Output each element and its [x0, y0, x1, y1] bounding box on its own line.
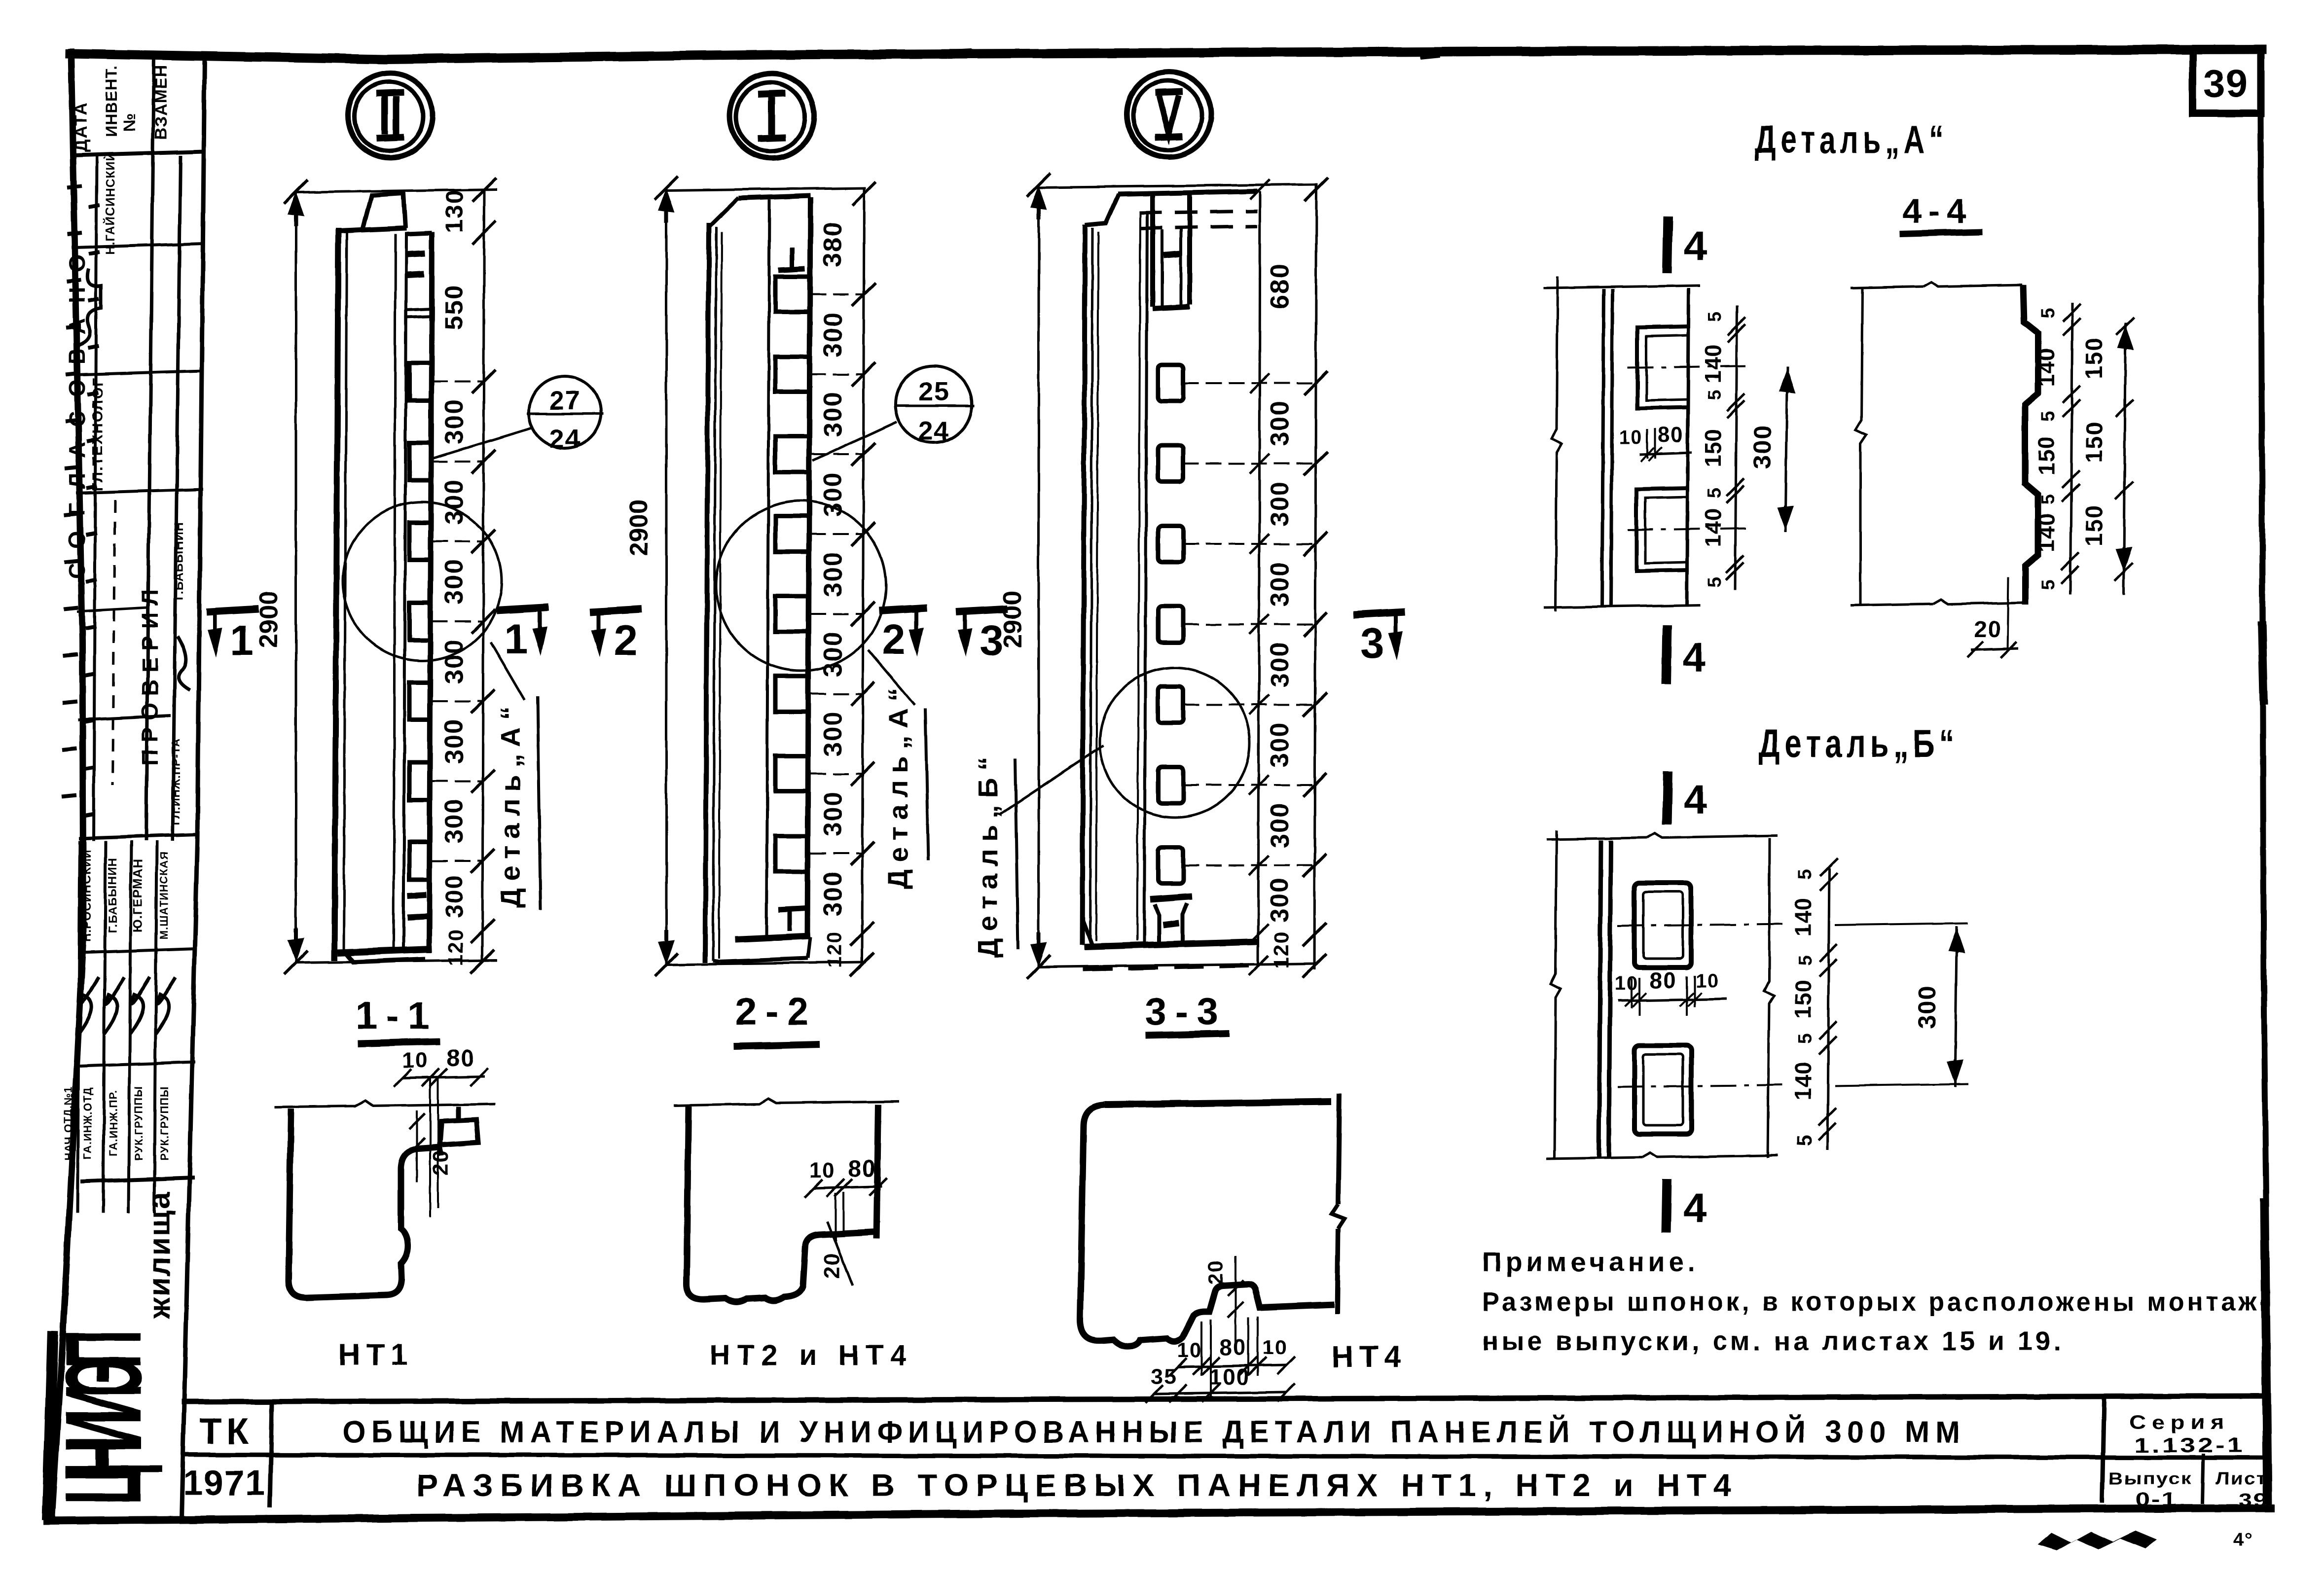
svg-text:300: 300: [1266, 722, 1294, 768]
svg-text:20: 20: [429, 1150, 453, 1176]
svg-text:4: 4: [1683, 634, 1707, 680]
svg-text:550: 550: [440, 285, 469, 330]
svg-text:300: 300: [819, 471, 847, 517]
svg-text:10: 10: [1619, 427, 1643, 448]
svg-text:Выпуск: Выпуск: [2108, 1469, 2192, 1488]
svg-text:Лист: Лист: [2215, 1469, 2267, 1488]
svg-text:80: 80: [1219, 1334, 1246, 1360]
svg-text:300: 300: [819, 791, 847, 837]
svg-text:80: 80: [1649, 967, 1676, 993]
svg-text:300: 300: [819, 312, 847, 357]
svg-text:20: 20: [1204, 1260, 1227, 1285]
svg-text:300: 300: [440, 399, 469, 445]
svg-text:Примечание.: Примечание.: [1482, 1246, 1699, 1277]
svg-text:80: 80: [848, 1156, 876, 1182]
svg-text:Н.РОСИНСКИЙ: Н.РОСИНСКИЙ: [80, 849, 94, 942]
svg-text:3-3: 3-3: [1145, 990, 1228, 1033]
svg-text:РУК.ГРУППЫ: РУК.ГРУППЫ: [133, 1086, 145, 1160]
svg-text:5: 5: [1705, 488, 1725, 499]
svg-text:10: 10: [1615, 973, 1639, 995]
svg-text:5: 5: [1795, 1033, 1816, 1043]
svg-text:3: 3: [1360, 620, 1384, 667]
svg-text:4°: 4°: [2233, 1530, 2253, 1551]
svg-text:5: 5: [1705, 389, 1725, 400]
svg-text:20: 20: [1974, 616, 2001, 642]
svg-text:Деталь„Б“: Деталь„Б“: [972, 750, 1003, 958]
svg-text:М.ШАТИНСКАЯ: М.ШАТИНСКАЯ: [158, 852, 170, 940]
svg-text:300: 300: [819, 392, 847, 437]
svg-text:300: 300: [819, 631, 847, 677]
svg-text:4: 4: [1684, 776, 1708, 822]
svg-text:300: 300: [1266, 481, 1294, 527]
svg-text:НТ4: НТ4: [1331, 1340, 1407, 1374]
svg-text:1: 1: [504, 615, 528, 663]
svg-text:НТ1: НТ1: [338, 1338, 413, 1372]
svg-text:140: 140: [1790, 897, 1816, 937]
svg-text:10: 10: [810, 1158, 836, 1182]
svg-text:150: 150: [2081, 504, 2107, 546]
svg-text:300: 300: [440, 559, 469, 605]
svg-text:35: 35: [1151, 1364, 1177, 1389]
svg-text:300: 300: [1748, 425, 1776, 468]
svg-text:140: 140: [1700, 344, 1726, 383]
svg-text:24: 24: [918, 416, 950, 446]
svg-text:Деталь„А“: Деталь„А“: [495, 700, 526, 908]
svg-text:300: 300: [1266, 642, 1294, 687]
svg-text:Деталь„А“: Деталь„А“: [882, 681, 913, 889]
svg-text:5: 5: [2038, 308, 2059, 319]
svg-text:150: 150: [1700, 428, 1726, 467]
svg-text:300: 300: [1266, 400, 1294, 446]
svg-text:НАЧ.ОТД.№1: НАЧ.ОТД.№1: [62, 1086, 74, 1160]
svg-text:300: 300: [440, 639, 469, 684]
svg-text:Г.БАБЫНИН: Г.БАБЫНИН: [172, 522, 186, 601]
svg-text:1-1: 1-1: [356, 994, 438, 1037]
svg-text:150: 150: [2081, 421, 2107, 463]
svg-text:ДАТА: ДАТА: [71, 101, 91, 152]
svg-text:39: 39: [2204, 62, 2249, 105]
svg-text:300: 300: [819, 871, 847, 917]
svg-text:ВЗАМЕН: ВЗАМЕН: [152, 65, 171, 140]
svg-text:130: 130: [440, 189, 468, 233]
svg-text:10: 10: [1696, 970, 1720, 992]
svg-text:1971: 1971: [183, 1464, 266, 1503]
svg-text:1.132-1: 1.132-1: [2134, 1433, 2245, 1457]
svg-text:20: 20: [820, 1252, 844, 1279]
svg-text:150: 150: [1790, 979, 1816, 1019]
svg-text:150: 150: [2081, 337, 2107, 379]
svg-text:Серия: Серия: [2129, 1412, 2230, 1433]
svg-text:2: 2: [882, 616, 906, 663]
svg-text:5: 5: [1792, 1134, 1816, 1146]
svg-text:140: 140: [1790, 1061, 1816, 1101]
svg-text:120: 120: [823, 930, 846, 968]
svg-text:300: 300: [1266, 802, 1294, 848]
svg-text:5: 5: [2038, 494, 2059, 504]
svg-text:ПРОВЕРИЛ: ПРОВЕРИЛ: [137, 583, 163, 766]
svg-text:Деталь„А“: Деталь„А“: [1755, 117, 1948, 161]
svg-text:24: 24: [549, 424, 581, 454]
svg-text:140: 140: [1700, 508, 1726, 547]
svg-text:Г.БАБЫНИН: Г.БАБЫНИН: [106, 858, 119, 933]
svg-text:140: 140: [2033, 513, 2059, 552]
svg-text:4-4: 4-4: [1902, 192, 1972, 230]
svg-text:5: 5: [1705, 576, 1725, 587]
svg-text:300: 300: [440, 718, 469, 764]
svg-text:100: 100: [1209, 1364, 1250, 1390]
svg-text:жилища: жилища: [143, 1191, 177, 1319]
svg-text:2900: 2900: [254, 591, 283, 648]
svg-text:300: 300: [1266, 877, 1294, 923]
svg-text:380: 380: [819, 221, 847, 267]
svg-text:10: 10: [1177, 1338, 1202, 1361]
svg-text:Н.ГАЙСИНСКИЙ: Н.ГАЙСИНСКИЙ: [103, 152, 117, 255]
svg-text:10: 10: [402, 1048, 429, 1072]
svg-text:2900: 2900: [624, 499, 653, 556]
svg-text:120: 120: [1270, 931, 1293, 968]
svg-text:300: 300: [440, 874, 468, 918]
svg-text:300: 300: [1913, 985, 1941, 1029]
svg-text:Ю.ГЕРМАН: Ю.ГЕРМАН: [130, 858, 145, 932]
svg-text:27: 27: [549, 386, 581, 415]
svg-text:ГА.ИНЖ.ОТД: ГА.ИНЖ.ОТД: [81, 1087, 94, 1159]
svg-text:680: 680: [1266, 263, 1294, 309]
svg-text:3: 3: [980, 617, 1003, 664]
svg-text:ГЛ.ИНЖ.ПР-ТА: ГЛ.ИНЖ.ПР-ТА: [169, 738, 182, 825]
svg-text:0-1: 0-1: [2136, 1489, 2178, 1510]
svg-text:25: 25: [918, 377, 950, 406]
svg-text:150: 150: [2033, 436, 2059, 475]
svg-text:ГА.ИНЖ.ПР.: ГА.ИНЖ.ПР.: [107, 1090, 119, 1156]
svg-text:5: 5: [2038, 410, 2059, 421]
svg-text:РУК.ГРУППЫ: РУК.ГРУППЫ: [158, 1086, 171, 1160]
svg-text:5: 5: [1795, 869, 1816, 880]
svg-text:300: 300: [440, 798, 469, 844]
svg-text:ЦНИИЭП: ЦНИИЭП: [42, 1333, 163, 1504]
svg-text:10: 10: [1263, 1335, 1288, 1358]
svg-text:80: 80: [1658, 423, 1684, 447]
svg-text:ИНВЕНТ.: ИНВЕНТ.: [103, 65, 120, 137]
svg-text:2: 2: [614, 617, 637, 664]
svg-text:300: 300: [440, 479, 469, 525]
svg-text:РАЗБИВКА ШПОНОК В ТОРЦЕВЫХ ПАН: РАЗБИВКА ШПОНОК В ТОРЦЕВЫХ ПАНЕЛЯХ НТ1, …: [417, 1467, 1739, 1503]
svg-text:39: 39: [2239, 1490, 2269, 1510]
svg-text:4: 4: [1684, 223, 1708, 269]
svg-text:140: 140: [2033, 348, 2059, 387]
svg-text:300: 300: [819, 551, 847, 597]
svg-text:№: №: [120, 113, 139, 132]
svg-text:СОГЛАСОВАНО: СОГЛАСОВАНО: [64, 240, 90, 579]
svg-text:1: 1: [230, 617, 254, 664]
svg-text:300: 300: [1266, 561, 1294, 607]
svg-text:Размеры шпонок, в которых расп: Размеры шпонок, в которых расположены мо…: [1482, 1287, 2271, 1317]
svg-text:Деталь„Б“: Деталь„Б“: [1759, 721, 1959, 765]
svg-text:2-2: 2-2: [735, 990, 818, 1033]
svg-text:ные выпуски, см. на листах 15: ные выпуски, см. на листах 15 и 19.: [1482, 1326, 2064, 1356]
svg-text:5: 5: [1705, 311, 1725, 322]
svg-text:НТ2 и НТ4: НТ2 и НТ4: [709, 1339, 913, 1371]
svg-text:ОБЩИЕ МАТЕРИАЛЫ И УНИФИЦИРОВАН: ОБЩИЕ МАТЕРИАЛЫ И УНИФИЦИРОВАННЫЕ ДЕТАЛИ…: [343, 1415, 1965, 1449]
svg-text:ТК: ТК: [199, 1411, 254, 1452]
svg-text:120: 120: [444, 929, 467, 966]
svg-text:80: 80: [446, 1045, 474, 1072]
svg-text:4: 4: [1683, 1184, 1707, 1231]
svg-text:300: 300: [819, 711, 847, 757]
svg-text:5: 5: [2038, 579, 2059, 590]
svg-text:5: 5: [1795, 955, 1816, 965]
